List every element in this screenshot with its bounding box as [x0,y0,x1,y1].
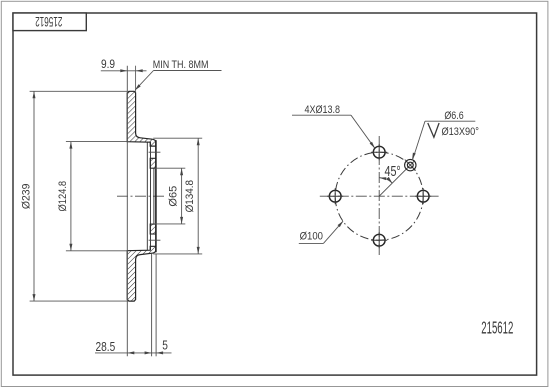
mounting face line [155,140,157,252]
svg-text:Ø13X90°: Ø13X90° [442,126,480,138]
center hole bore line [153,168,155,224]
centerline dash through bottom hole [378,232,380,248]
dim D65 top extension [154,167,185,169]
label 4XD13.8 arrow [370,142,377,149]
centerline dash through right hole [415,195,431,197]
svg-text:215612: 215612 [481,317,513,337]
BCD dash through right hole [422,188,424,204]
svg-text:215612: 215612 [35,13,62,28]
section centerline [117,195,166,197]
bolt hole left [329,190,341,202]
dim D134.8 top extension [153,137,202,139]
dim D239 bottom extension [30,300,129,302]
svg-text:9.9: 9.9 [101,59,115,72]
arc arrow top [379,176,386,180]
horizontal centerline [320,195,439,197]
title text 215612 rotated 180 [35,13,62,28]
disc rim + bottom web (hatched section, bottom half) [127,246,156,301]
small hole cross tick [405,160,416,171]
dim D65 line [181,168,183,224]
dim D239 line [33,91,35,301]
svg-text:Ø6.6: Ø6.6 [444,110,463,122]
label D100 underline [299,242,324,244]
svg-text:28.5: 28.5 [96,340,116,354]
dim D124.8 top extension [66,141,127,143]
svg-text:Ø65: Ø65 [167,186,179,207]
arrow 28.5 left [127,351,134,354]
label D100 leader arrow [338,220,345,227]
top bolt hole centerline tick [149,151,161,153]
countersink V symbol [428,123,439,137]
dimension 9.9 extension line right [135,66,137,93]
arrow D124.8 top [69,142,72,149]
title box top-left [13,13,86,31]
45 deg radius line [379,161,415,197]
BCD dash through bottom hole [371,239,387,241]
svg-text:4XØ13.8: 4XØ13.8 [305,104,341,116]
countersink circle D13 [405,159,416,170]
bolt hole right [417,190,429,202]
flange left face line through holes [150,142,152,250]
svg-text:Ø134.8: Ø134.8 [185,180,197,213]
text D134.8 rotated [185,180,197,213]
note leader arrow [134,84,141,91]
arrow 5 [156,351,163,354]
arrow D124.8 bottom [69,244,72,251]
svg-text:Ø100: Ø100 [300,231,324,243]
dim D239 top extension [30,90,128,92]
BCD dash through top hole [371,151,387,153]
dimension 9.9 extension line left [126,66,128,357]
svg-text:5: 5 [162,338,168,352]
bolt hole bottom [373,234,385,246]
label 4XD13.8 underline [292,114,351,116]
45 deg arc [379,178,392,183]
text D239 rotated [20,184,32,210]
bolt circle D100 (dashed) [335,152,423,240]
arrow D65 bottom [180,217,183,224]
arrow D239 bottom [33,294,36,301]
bolt hole top [373,146,385,158]
label D100 leader [323,221,343,243]
centerline dash through top hole [378,144,380,160]
label D6.6 leader [412,121,425,160]
hub flange segment between center hole and bottom bolt hole [150,224,156,234]
dim 28.5 / 5 extension line b [155,254,157,357]
hub flange segment between top bolt hole and center hole [150,158,156,168]
arrow D239 top [33,91,36,98]
dim D134.8 line [197,138,199,254]
text D124.8 rotated [58,181,70,212]
bottom bolt hole centerline tick [149,239,161,241]
svg-text:45°: 45° [385,163,401,180]
svg-text:MIN TH. 8MM: MIN TH. 8MM [153,60,209,72]
svg-text:Ø239: Ø239 [20,184,32,210]
arrow 9.9 right [136,69,143,72]
arrow D134.8 top [197,138,200,145]
note leader [135,71,153,90]
arrow D134.8 bottom [197,247,200,254]
arrow 28.5 right [145,351,152,354]
label 4XD13.8 leader [351,115,375,148]
vertical centerline [378,136,380,256]
label D6.6 underline [425,120,475,122]
dim D124.8 line [70,142,72,251]
note underline [154,70,222,72]
dimension 9.9 line [101,70,147,72]
small hole D6.6 [407,162,413,168]
label D6.6 leader arrow [411,153,416,161]
hat bore silhouette line [146,142,148,250]
svg-text:Ø124.8: Ø124.8 [58,181,70,212]
text D65 rotated [167,186,179,207]
dim 28.5 / 5 extension line a [151,254,153,357]
arrow D65 top [180,168,183,175]
BCD dash through left hole [334,188,336,204]
dim D124.8 bottom extension [66,250,127,252]
dim D134.8 bottom extension [153,253,202,255]
dim 28.5 line [95,352,172,354]
disc rim + top web (hatched section, top half) [127,91,156,146]
dim D65 bottom extension [154,223,185,225]
arc arrow bottom [387,177,394,184]
arrow 9.9 left [120,69,127,72]
centerline dash through left hole [327,195,343,197]
